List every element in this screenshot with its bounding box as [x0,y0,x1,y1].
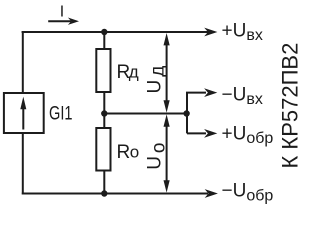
wire: divider chain lower segment [103,170,105,195]
current arrow I above top rail [48,18,79,25]
resistor Rd body [96,49,110,92]
svg-text:+Uобр: +Uобр [222,123,274,147]
node: bottom junction [101,190,107,196]
wire: divider chain middle segment [103,91,105,129]
current source GI1 internal arrow [20,97,26,130]
dimension arrow Ud (top rail to middle tap) [164,33,170,113]
current source GI1 box [4,93,44,133]
arrowhead +Uobr output [204,129,217,138]
label -Uobr [222,181,274,205]
node: top junction [101,29,107,35]
wire: left vertical lower (GI1 to bottom rail) [22,133,24,194]
wire: divider chain upper segment [103,31,105,50]
svg-text:I: I [60,4,64,21]
label -Uvx [222,84,263,108]
arrowhead -Uobr output [205,189,218,198]
wire: bottom horizontal rail to -Uobr [22,193,208,195]
svg-text:д: д [129,63,139,82]
label +Uobr [222,123,274,147]
label I (current) [60,4,64,21]
svg-text:−Uобр: −Uобр [222,181,274,205]
label Ud (rotated, across Rd) [145,66,169,94]
label Rd [117,62,139,83]
wire: tap bracket with -Uvx and +Uobr stubs [187,93,206,134]
label Uo (rotated, across Ro) [145,142,170,169]
svg-text:Uд: Uд [145,66,169,94]
label Ro [117,142,140,163]
resistor Ro body [96,128,110,171]
dimension arrow Uo (middle tap to bottom rail) [164,114,170,192]
label GI1 [49,103,73,124]
arrowhead +Uvx output [204,28,217,37]
label +Uvx [222,20,263,44]
label K KR572PV2 (rotated, to ADC chip) [277,43,302,169]
arrowhead -Uvx output [204,88,217,97]
svg-text:GI1: GI1 [49,103,73,124]
svg-text:−Uвх: −Uвх [222,84,263,108]
svg-text:R: R [117,142,131,163]
svg-text:+Uвх: +Uвх [222,20,263,44]
wire: left vertical upper (top rail to GI1) [22,31,24,93]
svg-text:К КР572ПВ2: К КР572ПВ2 [277,43,300,169]
node: middle junction at bracket [183,110,189,116]
wire: top horizontal rail to +Uvx [22,31,208,33]
node: middle junction at divider [101,110,107,116]
svg-text:о: о [130,143,139,162]
wire: middle horizontal tap [103,113,187,115]
